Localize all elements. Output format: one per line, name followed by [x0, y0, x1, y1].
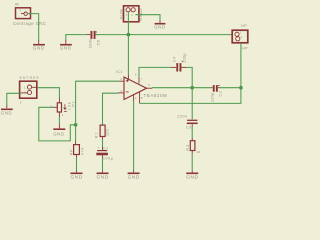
svg-text:220µ: 220µ — [210, 92, 214, 102]
resistor R3 1R (Zobel) — [186, 141, 201, 155]
potentiometer P1 10k — [50, 101, 75, 117]
svg-text:R1: R1 — [94, 132, 98, 138]
wire P1 wiper to + input net — [39, 107, 75, 141]
wire JP1 pin1 to GND — [27, 14, 38, 41]
wire C1 to GND — [102, 158, 104, 171]
connector ALIM — [118, 6, 143, 22]
resistor R2 120 — [94, 125, 109, 139]
svg-text:GND: GND — [128, 174, 140, 179]
junction (wiper / +input vertical) — [74, 123, 78, 127]
svg-text:GND: GND — [186, 174, 198, 179]
wire P1 bottom to GND — [58, 117, 60, 124]
svg-text:C4: C4 — [172, 57, 176, 63]
capacitor C3 220n (Zobel) — [177, 114, 197, 129]
connector ENTREE — [20, 76, 40, 104]
wire C6 left to GND — [66, 35, 87, 41]
junction (ALIM / +V rail) — [127, 33, 131, 37]
svg-text:100µ: 100µ — [103, 156, 114, 160]
svg-text:220µ: 220µ — [182, 53, 186, 63]
ground GND (left of C6) — [60, 45, 72, 51]
svg-text:100n: 100n — [88, 39, 93, 48]
junction (C4 branch / output rail) — [190, 86, 194, 90]
wire HP pin2 down to output rail and lower rail — [140, 43, 241, 103]
wire IC1 pin2 down to R2 — [103, 93, 118, 124]
svg-text:GND: GND — [97, 174, 109, 179]
svg-text:TBA820M: TBA820M — [144, 93, 168, 98]
connector JP1 — [13, 3, 46, 26]
svg-text:GND: GND — [1, 111, 12, 116]
wire IC1 pin7 bootstrap to C4 — [139, 67, 171, 77]
capacitor C2 220u (output, in series) — [210, 85, 222, 102]
wire C4 to output rail — [186, 67, 192, 87]
wire ENTREE pin1 to P1 top — [37, 88, 59, 98]
wire ALIM pin1 down to rail and IC1 pin 6 — [127, 12, 129, 75]
resistor RP 47k — [69, 145, 84, 158]
svg-text:47k: 47k — [81, 148, 85, 156]
svg-text:GND: GND — [60, 46, 71, 51]
connector HP (speaker) — [232, 24, 248, 50]
svg-text:IC1: IC1 — [116, 70, 123, 74]
wire R2 to C1 — [102, 139, 104, 147]
svg-text:C3: C3 — [186, 126, 191, 130]
svg-text:GND: GND — [33, 46, 44, 51]
ground GND (under JP1) — [33, 45, 45, 51]
svg-text:Centrage CNC: Centrage CNC — [13, 21, 46, 26]
junction (HP / output rail) — [239, 86, 243, 90]
svg-text:P1: P1 — [71, 101, 75, 106]
ground GND (under R3) — [186, 173, 198, 179]
wire IC1 pin4 to GND — [133, 101, 135, 171]
svg-text:R3: R3 — [186, 145, 190, 151]
svg-text:C6: C6 — [96, 39, 101, 45]
wire ENTREE pin2 to GND — [7, 93, 21, 105]
wire ALIM pin2 to GND — [135, 15, 160, 21]
svg-text:C1: C1 — [103, 146, 108, 150]
svg-text:ENTREE: ENTREE — [20, 76, 40, 80]
wire C3 to R3 — [191, 126, 193, 138]
wire output rail — [152, 87, 211, 89]
ground GND (left of ENTREE) — [1, 109, 13, 115]
ground GND (under P1) — [53, 129, 65, 136]
ground GND (under RP) — [71, 173, 83, 179]
ground GND (under C1) — [97, 173, 109, 179]
svg-text:+: + — [97, 146, 99, 150]
svg-text:GND: GND — [71, 174, 83, 179]
svg-text:HP: HP — [242, 46, 248, 50]
svg-text:GND: GND — [53, 131, 64, 136]
wire C4 branch down to C3 (crosses lower rail) — [191, 88, 193, 120]
svg-text:JP1: JP1 — [15, 3, 20, 7]
capacitor C1 100u (polarized) — [96, 146, 113, 160]
svg-text:1: 1 — [20, 100, 22, 104]
wire +V rail — [96, 34, 232, 36]
op-amp IC1 TBA820M — [116, 70, 167, 103]
svg-text:GND: GND — [154, 25, 165, 30]
svg-text:ALIM: ALIM — [118, 9, 123, 19]
wire R3 to GND — [191, 153, 193, 171]
wire RP to GND — [76, 158, 78, 171]
ground GND (IC1 pin4) — [128, 173, 140, 179]
capacitor C4 220u (bootstrap) — [172, 53, 186, 72]
svg-text:220n: 220n — [177, 114, 187, 118]
capacitor C6 100n — [87, 31, 101, 48]
svg-text:RP: RP — [69, 149, 73, 155]
svg-text:HP: HP — [241, 24, 247, 28]
wire +input net (to IC1 pin3 and RP) — [76, 81, 120, 141]
ground GND (right of ALIM) — [154, 24, 165, 30]
svg-text:120: 120 — [106, 129, 110, 136]
svg-text:C2: C2 — [219, 91, 223, 97]
